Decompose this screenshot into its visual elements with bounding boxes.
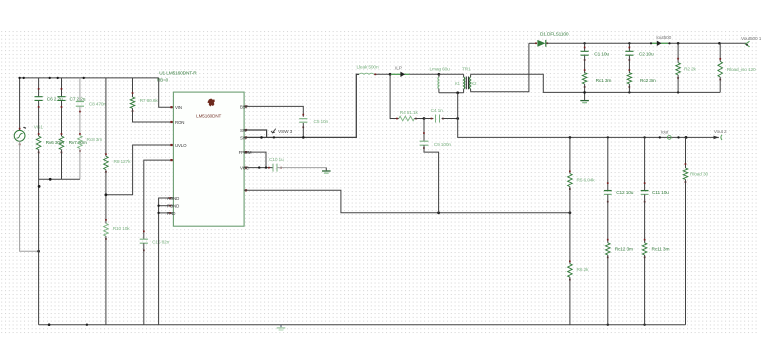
- capacitor C11 10u: [641, 137, 649, 242]
- svg-text:R4 51.1k: R4 51.1k: [400, 110, 419, 116]
- svg-text:Lleak 500n: Lleak 500n: [357, 65, 379, 71]
- probe Iout: [667, 136, 671, 140]
- label D1 DFLS1100: [540, 32, 569, 38]
- svg-text:C12 10u: C12 10u: [616, 190, 634, 196]
- capacitor C1 10u: [581, 43, 589, 73]
- label Rc2 3m: [640, 78, 656, 84]
- wire SW1: [244, 130, 267, 137]
- pin PGND: [167, 204, 179, 209]
- pin UVLO: [175, 143, 187, 148]
- wire FPWM tie: [244, 152, 266, 168]
- capacitor C10 1u: [268, 164, 282, 172]
- label ILP: [395, 66, 402, 72]
- svg-text:K2: K2: [472, 81, 478, 86]
- resistor R5 6.04k: [568, 137, 573, 263]
- label K2: [472, 81, 478, 86]
- label Iout500: [656, 35, 671, 41]
- wire AGND PGND PAD: [157, 197, 173, 325]
- resistor R6 2k: [568, 261, 573, 325]
- label LM5160DNT inside: [196, 113, 221, 118]
- transformer TR1 secondary: [469, 74, 470, 92]
- pin VIN: [175, 105, 182, 110]
- pin FPWM: [239, 150, 252, 155]
- resistor R2 2k: [676, 43, 681, 92]
- svg-text:Vout 2: Vout 2: [714, 129, 727, 135]
- node Vout2 junctions: [569, 136, 688, 139]
- svg-text:Iout500: Iout500: [656, 35, 671, 41]
- svg-text:R8 127k: R8 127k: [114, 159, 132, 165]
- svg-text:R2 2k: R2 2k: [684, 66, 697, 72]
- node input rail junctions: [18, 77, 85, 79]
- svg-text:AGND: AGND: [167, 196, 179, 201]
- label VG1: [34, 124, 44, 130]
- op-amp U1 LM5160DNT box: [173, 92, 244, 226]
- svg-text:R7 80.6k: R7 80.6k: [140, 98, 159, 104]
- wire rail to VIN: [159, 78, 174, 107]
- wire primary bottom: [439, 92, 464, 94]
- svg-text:C15 82n: C15 82n: [152, 240, 170, 246]
- label R5 6.04k: [577, 177, 596, 183]
- pin AGND: [167, 196, 179, 201]
- resistor Rc12 3m: [606, 239, 611, 325]
- resistor Rload_iso 120: [718, 43, 723, 92]
- label Rv7 30m: [69, 140, 87, 146]
- node R4 C4 junction: [423, 117, 426, 120]
- ground iso: [580, 92, 589, 102]
- inductor Lmag 60u: [438, 74, 439, 93]
- probe ILP arrow: [391, 72, 439, 77]
- label R10 10k: [113, 226, 131, 232]
- label Vout 2: [714, 129, 727, 135]
- wire VCC: [244, 166, 273, 168]
- svg-text:Rc12 3m: Rc12 3m: [615, 246, 633, 252]
- svg-text:C2 10u: C2 10u: [639, 52, 654, 58]
- svg-text:UVLO: UVLO: [175, 143, 187, 148]
- pin VCC: [240, 166, 249, 171]
- wire secondary top to iso return: [471, 74, 721, 92]
- pin terminal right: [245, 129, 247, 131]
- label C4 1n: [431, 108, 444, 114]
- pin terminal left: [170, 121, 172, 123]
- node merge: [38, 178, 52, 188]
- wire primary top: [439, 73, 464, 75]
- label Vout500 1: [741, 36, 761, 42]
- label Lleak 500n: [357, 65, 379, 71]
- label C15 82n: [152, 240, 170, 246]
- wire UVLO: [106, 145, 173, 195]
- resistor Rc1 3m: [582, 69, 587, 92]
- probe Vout 2: [714, 135, 723, 140]
- label Iout: [661, 130, 669, 136]
- capacitor C5 10n: [299, 114, 307, 138]
- node ground rail junctions: [48, 323, 646, 326]
- label R7 80.6k: [140, 98, 159, 104]
- svg-text:ILP: ILP: [395, 66, 402, 72]
- resistor Rc8: [78, 136, 83, 180]
- wire secondary bottom to D1: [471, 43, 529, 92]
- capacitor C12 10u: [604, 137, 612, 242]
- ground VCC: [322, 171, 331, 173]
- resistor Rv6: [36, 133, 41, 325]
- node FB junctions: [437, 211, 571, 214]
- label C8 470n: [89, 102, 107, 108]
- label R8 127k: [114, 159, 132, 165]
- transformer TR1 primary: [464, 74, 465, 93]
- node Lmag top: [438, 73, 441, 76]
- svg-text:Rc8 3m: Rc8 3m: [87, 137, 103, 143]
- resistor Rc2 3m: [627, 69, 632, 92]
- pin terminal right: [245, 151, 247, 153]
- pin RON: [175, 120, 184, 125]
- pin BST: [240, 104, 249, 109]
- capacitor C7: [57, 78, 65, 136]
- svg-text:C1 10u: C1 10u: [594, 52, 609, 58]
- label Rc11 3m: [652, 246, 670, 252]
- node ILP junction: [389, 73, 392, 76]
- diode D1 DFLS1100: [529, 40, 747, 47]
- svg-text:PGND: PGND: [167, 204, 179, 209]
- resistor Rv7: [59, 133, 64, 179]
- svg-text:U1 LM5160DNT-R: U1 LM5160DNT-R: [159, 70, 197, 76]
- wire top input rail: [20, 77, 159, 79]
- svg-text:Rload_iso 120: Rload_iso 120: [727, 67, 756, 73]
- svg-text:K1: K1: [455, 81, 461, 86]
- capacitor C4 1n: [424, 115, 458, 123]
- transformer TR1 core: [466, 77, 468, 90]
- label Rv6 30m: [46, 140, 64, 146]
- svg-text:PAD: PAD: [167, 211, 175, 216]
- label C2 10u: [639, 52, 654, 58]
- pin terminal right: [245, 189, 247, 191]
- svg-text:RB=0: RB=0: [157, 78, 169, 83]
- pin terminal left: [170, 106, 172, 108]
- label Rload 30: [690, 172, 708, 178]
- wire VCC cap to ground: [277, 168, 326, 171]
- voltage source VG1: [14, 78, 40, 253]
- pin terminal right: [245, 167, 247, 169]
- wire Vout2 rail: [458, 93, 719, 138]
- label Rc8 3m: [87, 137, 103, 143]
- label Lmag 60u: [430, 67, 451, 73]
- node SW junctions: [260, 136, 304, 139]
- svg-text:Rc11 3m: Rc11 3m: [652, 246, 670, 252]
- label C10 1u: [269, 157, 284, 163]
- svg-text:TR1: TR1: [462, 67, 471, 73]
- svg-text:Rload 30: Rload 30: [690, 172, 708, 178]
- label C12 10u: [616, 190, 634, 196]
- resistor R4 51.1k: [396, 116, 424, 121]
- svg-text:R5 6.04k: R5 6.04k: [577, 177, 596, 183]
- label C7 2.2u: [70, 96, 86, 102]
- svg-text:VSW 3: VSW 3: [278, 129, 293, 135]
- label U1 LM5160DNT-R: [159, 70, 197, 76]
- pin terminal left: [170, 159, 172, 161]
- pin SW1: [240, 128, 248, 133]
- pin terminal right: [245, 136, 247, 138]
- wire R7 to RON: [133, 108, 174, 122]
- capacitor C9 100n: [420, 119, 439, 213]
- label Rc12 3m: [615, 246, 633, 252]
- label C9 100n: [434, 142, 452, 148]
- resistor Rload 30: [683, 137, 688, 324]
- pin PAD: [167, 211, 175, 216]
- pin terminal left: [170, 144, 172, 146]
- svg-text:C8 470n: C8 470n: [89, 102, 107, 108]
- svg-text:Rc1 3m: Rc1 3m: [596, 78, 612, 84]
- svg-text:Vout500 1: Vout500 1: [741, 36, 761, 42]
- probe Vout500 1: [746, 41, 750, 47]
- probe Iout500: [650, 41, 671, 46]
- svg-text:Iout: Iout: [661, 130, 669, 136]
- svg-text:C5 10n: C5 10n: [314, 119, 329, 125]
- wire input caps merge: [39, 178, 80, 180]
- label Rc1 3m: [596, 78, 612, 84]
- resistor R10 10k: [104, 219, 109, 325]
- wire R4 branch: [390, 74, 399, 118]
- label R6 2k: [577, 267, 590, 273]
- resistor R7 80.6k: [130, 78, 135, 112]
- pin SW2: [240, 135, 248, 140]
- wire FB right: [244, 190, 570, 213]
- label R2 2k: [684, 66, 697, 72]
- label TR1: [462, 67, 471, 73]
- label R4 51.1k: [400, 110, 419, 116]
- wire bottom ground rail: [39, 324, 686, 326]
- label C5 10n: [314, 119, 329, 125]
- node UVLO divider: [105, 193, 108, 196]
- ground: [277, 325, 286, 330]
- resistor Rc11 3m: [642, 239, 647, 325]
- capacitor C8: [76, 78, 84, 136]
- node iso rail junctions: [583, 42, 720, 45]
- svg-text:R6 2k: R6 2k: [577, 267, 590, 273]
- svg-text:C4 1n: C4 1n: [431, 108, 444, 114]
- wire FB pin to C15: [143, 160, 173, 239]
- svg-text:Lmag 60u: Lmag 60u: [430, 67, 451, 73]
- probe VSW 3: [271, 129, 293, 135]
- wire BST to C5: [244, 106, 303, 116]
- resistor R8 127k: [104, 78, 109, 224]
- label C1 10u: [594, 52, 609, 58]
- node C4 to Vout2 leg: [456, 117, 459, 120]
- pin terminal right: [245, 105, 247, 107]
- label Rload_iso 120: [727, 67, 756, 73]
- label C6 2.2u: [47, 96, 63, 102]
- label RB=0: [157, 78, 169, 83]
- svg-text:Rc2 3m: Rc2 3m: [640, 78, 656, 84]
- capacitor C6: [35, 78, 43, 136]
- svg-text:C11 10u: C11 10u: [652, 190, 669, 196]
- inductor Lleak 500n: [359, 73, 390, 75]
- svg-text:RON: RON: [175, 120, 184, 125]
- svg-text:C10 1u: C10 1u: [269, 157, 284, 163]
- node iso return junctions: [583, 91, 679, 94]
- node primary bottom: [456, 91, 459, 94]
- wire SW line: [244, 74, 359, 137]
- TI logo: [207, 99, 214, 107]
- svg-text:LM5160DNT: LM5160DNT: [196, 113, 221, 118]
- svg-text:D1 DFLS1100: D1 DFLS1100: [540, 32, 569, 38]
- svg-text:VIN: VIN: [175, 105, 182, 110]
- label K1: [455, 81, 461, 86]
- svg-text:R10 10k: R10 10k: [113, 226, 131, 232]
- capacitor C15 82n: [140, 239, 148, 325]
- capacitor C2 10u: [625, 43, 633, 73]
- label C11 10u: [652, 190, 669, 196]
- svg-text:C9 100n: C9 100n: [434, 142, 452, 148]
